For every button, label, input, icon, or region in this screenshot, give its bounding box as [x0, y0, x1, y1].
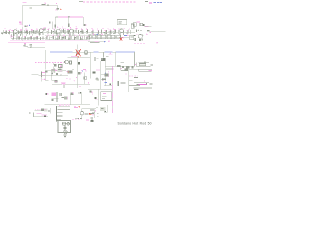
wire fx stub — [90, 42, 99, 44]
label pink fx2 — [95, 41, 110, 43]
label pink small4 — [88, 82, 89, 83]
capacitor C14 box — [70, 61, 72, 64]
wire heater vert2 — [80, 92, 82, 104]
junction node — [68, 16, 70, 18]
label pink under X — [71, 56, 79, 58]
label pink bl3 — [42, 115, 48, 117]
transformer T1 taps — [57, 113, 62, 120]
wire lamp dashes — [75, 118, 81, 120]
switch SW2 circle — [58, 130, 70, 134]
thick bar right — [117, 81, 119, 86]
label pink node A — [19, 22, 22, 25]
resistor R50 plate — [55, 24, 56, 27]
capacitor C22 box — [78, 72, 80, 74]
magenta bias line — [111, 66, 113, 113]
tube V2A — [57, 29, 61, 35]
resistor R41 box — [84, 77, 87, 80]
capacitor C17 — [89, 91, 93, 95]
tube V4 circle — [64, 60, 69, 64]
wire psu left wire — [32, 74, 39, 76]
jack J4 box — [130, 35, 134, 40]
wire preamp row B — [11, 37, 45, 39]
node dot bus1 — [51, 74, 52, 75]
wire standby vert — [107, 105, 109, 112]
label pink lamp — [74, 106, 78, 109]
wire T1 left2 — [48, 110, 50, 113]
bias marks — [51, 97, 67, 101]
tube V3 upper cluster — [134, 34, 148, 42]
label pink imp — [95, 98, 98, 101]
diode D4 box — [59, 65, 63, 68]
label pink C7 — [57, 26, 59, 28]
wire heater dash gray — [79, 0, 83, 2]
resistor R30 cluster — [95, 57, 99, 61]
wire junction drop — [68, 17, 70, 27]
fuse holder dark — [45, 71, 47, 73]
resistor R4 — [35, 29, 38, 33]
wire B+ pink rail — [58, 16, 83, 18]
heater cluster — [45, 92, 62, 96]
wire speaker bus — [88, 88, 112, 90]
label pink fx — [123, 35, 129, 39]
wire pink mid row — [45, 39, 90, 41]
resistor R15 — [62, 28, 65, 33]
capacitor C13 — [147, 30, 151, 33]
capacitor C12 dark — [143, 24, 145, 26]
wire pink bus row B — [8, 41, 45, 43]
wire second band — [45, 32, 90, 34]
wire drop 103 — [103, 52, 105, 57]
resistor R8 on rail — [42, 3, 50, 6]
wire pink dashed psu — [35, 61, 63, 63]
wire presence blue seg2 — [93, 51, 98, 53]
wire pwr mid — [106, 65, 116, 67]
label pink dot mid — [157, 42, 158, 43]
wire left ladder — [44, 71, 46, 81]
wire drop 134 — [134, 52, 136, 66]
voltage selector circles — [62, 122, 69, 125]
capacitor C16 plus — [96, 77, 99, 80]
wire heater long — [45, 104, 90, 106]
wire upper band — [90, 31, 135, 33]
speaker blobs — [120, 66, 134, 69]
jack J3 return — [107, 35, 111, 39]
wire bus mid — [39, 74, 68, 76]
wire out row — [116, 65, 135, 67]
capacitor C6 — [24, 44, 32, 46]
resistor R10 — [23, 43, 26, 46]
label pink vert dashes — [108, 71, 110, 77]
wire elbow 120 — [121, 66, 127, 71]
fuse F3 red — [85, 113, 92, 115]
label pink bias — [137, 20, 140, 23]
wire ladder stub — [45, 79, 48, 81]
wire presence bus gray — [50, 51, 135, 53]
wire preamp row A — [1, 32, 45, 34]
label pink bias2 — [145, 25, 149, 28]
wire stub — [52, 21, 54, 29]
label pink col dashes — [81, 70, 83, 74]
resistor R25 — [113, 29, 116, 34]
wire heater stub — [51, 97, 58, 99]
wire bias drop — [63, 84, 65, 88]
tube V1B — [39, 28, 44, 35]
label pink ot — [96, 69, 100, 72]
wire bias bus — [52, 83, 90, 85]
label psu pink — [56, 70, 57, 71]
svg-text:Soldano Hot Rod 50: Soldano Hot Rod 50 — [118, 122, 152, 126]
capacitor C7 — [43, 27, 46, 30]
label fleck row A — [4, 28, 42, 30]
wire heater pink dashed — [83, 1, 137, 3]
wire rail left drop — [21, 6, 23, 41]
resistor R17 — [80, 29, 83, 33]
wire lamp down — [81, 115, 83, 119]
wire pwr mid2 — [106, 68, 114, 70]
wire heater col — [56, 92, 58, 102]
capacitor C23 plus — [101, 78, 104, 81]
connector P1 dark — [78, 62, 80, 64]
resistor R11 — [30, 45, 32, 48]
wire mid row upper — [45, 35, 90, 37]
resistor R51 plate — [68, 24, 69, 27]
resistor ticks row mid — [47, 36, 90, 40]
node dot red — [60, 9, 62, 11]
label fleck row mid — [48, 34, 86, 35]
capacitor C3 — [23, 36, 25, 39]
fuse F2 — [51, 71, 58, 77]
wire ot col — [100, 61, 102, 89]
label pink psw2 — [86, 119, 89, 122]
label pink row B — [10, 35, 13, 38]
wire fx link — [89, 36, 129, 38]
resistor R22 — [74, 35, 77, 39]
capacitor C11 — [103, 30, 106, 34]
capacitor C18 can — [41, 71, 46, 81]
resistor R27 box — [131, 24, 134, 28]
wire bl elbow — [34, 112, 49, 117]
relay K1 box — [111, 35, 115, 39]
input jack J1 — [1, 32, 3, 34]
wire bottom bus right — [133, 87, 152, 89]
wire T1 left vert — [50, 108, 52, 113]
resistor R21 — [62, 35, 65, 39]
resistor R28 — [136, 29, 142, 31]
label blue dot ot — [105, 73, 106, 74]
label pink heater — [59, 105, 80, 107]
primary bar — [56, 120, 67, 121]
wire row C — [28, 47, 46, 49]
wire imp col — [98, 89, 100, 105]
wire psu drop2 — [59, 67, 61, 70]
capacitor C21 — [97, 30, 100, 34]
wire heater vert1 — [69, 95, 71, 105]
node dot bus2 — [60, 74, 61, 75]
wire bias right — [144, 26, 151, 28]
capacitor C10 — [68, 36, 71, 40]
impedance box — [101, 92, 112, 101]
label pink small2 — [44, 79, 45, 80]
label pink bl — [35, 108, 41, 110]
label pink sw — [93, 34, 103, 36]
label pink fleck a — [66, 78, 67, 79]
resistor R2 — [19, 30, 22, 34]
resistor cluster ot — [96, 79, 99, 81]
label pink V5 — [109, 53, 113, 55]
label blue nfb — [105, 82, 107, 83]
resistor R13 — [46, 29, 49, 33]
wire lamp bus — [82, 107, 96, 109]
presence pot — [134, 80, 153, 85]
wire pink mains — [72, 118, 81, 120]
potentiometer VR1 gain — [35, 36, 38, 40]
label pink dot sb — [125, 73, 126, 74]
tube V1A — [11, 30, 18, 37]
label pink fleck d — [76, 77, 77, 78]
wire B+ node rect left — [55, 16, 58, 18]
wire mid row — [45, 38, 90, 40]
jack J2 send — [101, 35, 106, 39]
label marks psw — [92, 112, 95, 115]
resistor R29 box — [85, 51, 88, 54]
wire lamp up — [81, 108, 83, 111]
bias pot box — [129, 69, 152, 71]
wire B+ rail top — [22, 5, 58, 7]
dark blob psw — [91, 120, 94, 122]
capacitor C4 label — [56, 3, 57, 4]
diode D5 box — [55, 80, 58, 82]
wire filter col — [44, 50, 46, 70]
wire T1 left1 — [44, 109, 46, 112]
resistor R26 — [126, 30, 129, 34]
vertical joins band — [14, 34, 39, 36]
pilot lamp PL1 — [80, 111, 84, 115]
standby marks — [90, 107, 106, 114]
wire rect left drop — [54, 17, 56, 29]
label pink v3b — [82, 69, 86, 71]
ground lug dot — [29, 112, 30, 113]
standby box — [124, 68, 128, 92]
resistor R1 — [8, 30, 10, 34]
wire gnd vert — [93, 110, 95, 118]
resistor R34 mark — [95, 97, 97, 99]
resistor R52 plate — [84, 24, 87, 26]
wire right bus mid — [128, 85, 140, 87]
label pink on V1 wire — [21, 25, 24, 27]
resistor R6 — [17, 36, 19, 40]
capacitor C9 — [50, 35, 53, 39]
capacitor C15 dash — [121, 61, 124, 64]
capacitor C2 — [30, 30, 33, 34]
wire psu vert a — [51, 71, 53, 81]
transformer T1 core — [56, 106, 57, 121]
resistor R19 — [45, 36, 47, 39]
resistor ticks row B — [13, 36, 43, 40]
wire fx lower — [88, 40, 104, 42]
mains box — [58, 120, 71, 132]
pot cluster dark — [66, 71, 72, 74]
resistor R5 — [12, 36, 14, 39]
label pink fleck c — [74, 80, 75, 81]
capacitor C20 — [25, 25, 31, 27]
diode D2 box — [140, 23, 143, 26]
wire ot elbow — [104, 85, 112, 87]
diode D1 box — [133, 23, 136, 27]
resistor R24 — [108, 30, 111, 34]
tube V5 dark blob — [101, 58, 106, 61]
wire PI col1 — [90, 52, 92, 78]
label dark pct — [102, 78, 106, 81]
label fleck band2 — [48, 28, 130, 30]
label pink T1 — [60, 104, 70, 106]
wire bias long — [147, 31, 165, 33]
wire T1 top — [58, 105, 71, 107]
wire v3b col — [84, 72, 86, 84]
node label pink rail — [23, 2, 27, 3]
resistor R14 — [53, 29, 56, 33]
capacitor C1 — [4, 30, 7, 34]
label pink bl2 — [37, 112, 42, 114]
relay K2 box — [117, 35, 121, 39]
resistor R20 — [56, 36, 59, 40]
resistor ticks band2 — [48, 30, 131, 35]
magenta line gray segs — [111, 74, 113, 112]
label dark dash sb — [124, 82, 125, 83]
label top right blue — [154, 1, 163, 4]
potentiometer VR2 master — [80, 36, 83, 40]
label pink plate dots — [57, 26, 77, 28]
mains plug — [63, 135, 66, 138]
wire standby stub — [104, 111, 108, 113]
wire phase wire — [68, 57, 90, 59]
diode D3 box — [53, 63, 56, 66]
switch SW1 contact boxes — [89, 35, 101, 39]
tube V3B box — [76, 51, 80, 54]
label pink small1 — [85, 70, 86, 71]
label pink dashes — [129, 75, 138, 77]
resistor R32 — [117, 65, 121, 67]
choke blob — [104, 74, 108, 77]
wire drop 115 — [115, 52, 117, 66]
wire T1 second — [58, 109, 71, 111]
wire psu vert b — [54, 68, 56, 73]
wire bl top — [34, 109, 43, 111]
wire pink row B upper — [10, 39, 45, 41]
wire presence blue seg3 — [104, 51, 112, 53]
capacitor C8 — [75, 28, 78, 33]
heater marks2 — [67, 92, 81, 99]
marker X2 red — [120, 38, 122, 41]
wire psu drop1 — [52, 67, 54, 71]
dark dash right — [134, 77, 138, 78]
ground marks bl — [90, 118, 93, 122]
choke L1 box — [51, 69, 56, 72]
wire V3 col — [76, 56, 78, 88]
resistor R12 — [49, 22, 50, 24]
wire psu row — [45, 70, 66, 72]
label top right gray — [145, 1, 148, 2]
wire presence blue seg4 — [116, 51, 135, 53]
node dark — [109, 84, 111, 86]
label pink small3 — [79, 86, 80, 87]
capacitor C5 — [56, 8, 60, 10]
grid marks — [69, 71, 71, 73]
wire ot col2 — [104, 61, 106, 86]
resistor R7 — [29, 36, 32, 40]
wire psu elbow — [52, 80, 56, 82]
label gray dash — [134, 88, 138, 91]
label pink gnd — [95, 110, 99, 116]
tube socket V6 — [93, 71, 96, 73]
resistor R31 dash — [106, 55, 109, 58]
label pink fleck b — [69, 79, 70, 80]
label dash y69 — [72, 68, 74, 71]
resistor R9 — [29, 7, 31, 9]
wire pink dashed mid — [134, 43, 146, 45]
resistor R33 dash — [120, 82, 124, 85]
resistor R18 — [86, 29, 88, 33]
resistor R3 — [25, 30, 28, 34]
fuse F1 — [63, 125, 66, 130]
resistor ticks row A — [3, 30, 39, 35]
wire ot wire2 — [101, 74, 109, 76]
marker X1 red — [76, 49, 81, 56]
choke bracket — [135, 62, 153, 67]
resistor R40 — [91, 30, 94, 34]
resistor R16 — [66, 29, 68, 33]
component bl — [41, 108, 48, 111]
wire rail right drop — [57, 6, 59, 11]
tube V2B — [69, 29, 73, 35]
label pink bias bus — [61, 82, 65, 84]
label top right pink — [149, 2, 152, 3]
wire presence blue seg1 — [50, 51, 73, 53]
wire X drop above — [77, 44, 79, 49]
rectifier cluster — [58, 68, 63, 72]
terminal box TB1 — [117, 20, 127, 25]
wire short stub — [129, 80, 133, 82]
tube V3A — [120, 29, 124, 35]
wire rect right drop — [82, 17, 84, 24]
resistor R23 — [86, 36, 88, 40]
